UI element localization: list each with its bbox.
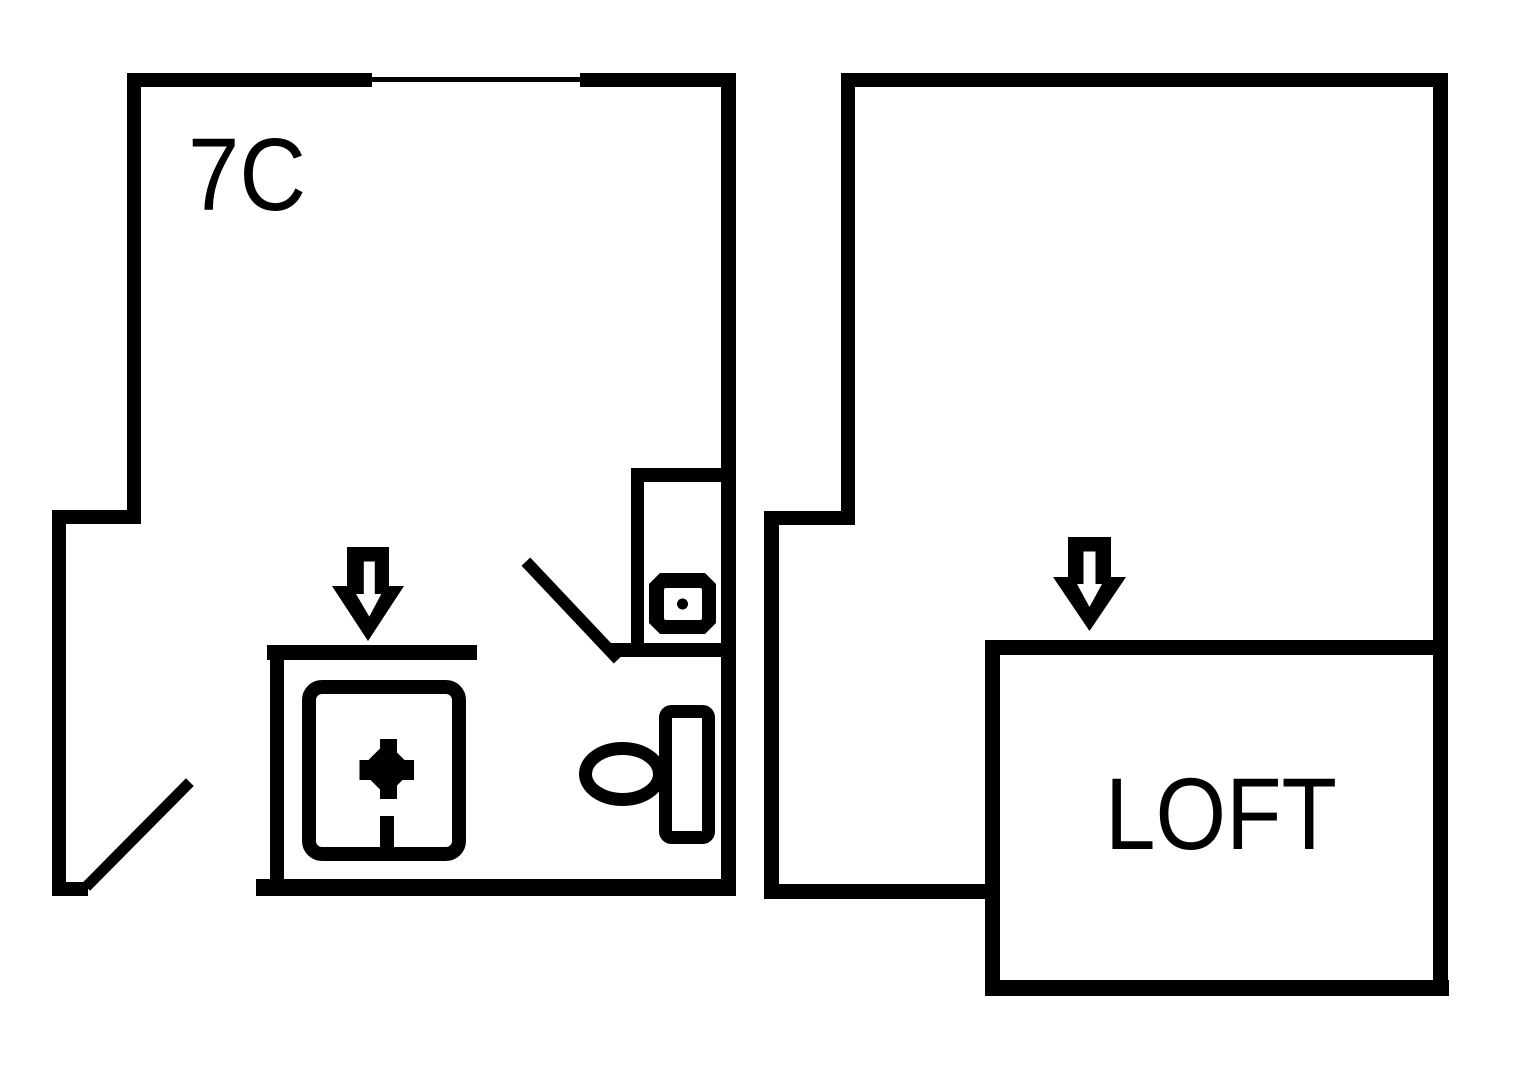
wall: unit 7C left jog <box>52 510 141 524</box>
wall: loft room top <box>841 73 1448 87</box>
wall: unit 7C upper-left <box>127 73 141 524</box>
wall: loft room bottom <box>764 884 1000 899</box>
svg-text:7C: 7C <box>188 117 306 232</box>
arrow: loft entrance (inner) <box>1077 552 1102 608</box>
wall: unit 7C bottom foot <box>52 882 88 896</box>
wall: unit 7C right <box>721 73 736 896</box>
toilet bowl <box>586 749 660 800</box>
vanity cabinet bottom <box>611 643 736 657</box>
wall: bathroom left <box>270 645 284 879</box>
wall: loft room right <box>1433 73 1448 996</box>
shower head star <box>360 739 415 799</box>
shower drain tick <box>380 816 394 852</box>
toilet tank <box>666 712 709 838</box>
sink basin (octagon) <box>649 573 716 634</box>
wall: loft room left jog <box>764 511 855 525</box>
shower stall <box>309 687 459 854</box>
wall: unit 7C bottom <box>256 879 736 896</box>
door swing: unit 7C entry <box>90 786 186 883</box>
vanity cabinet left <box>631 468 644 656</box>
wall: loft left <box>985 640 1000 996</box>
wall: loft top <box>985 640 1448 655</box>
wall: unit 7C top-right segment <box>580 73 736 87</box>
wall: unit 7C lower-left <box>52 510 66 896</box>
sink drain dot <box>677 599 688 610</box>
wall: unit 7C top-left segment <box>127 73 372 87</box>
arrow: unit 7C entrance (inner) <box>356 562 381 617</box>
svg-text:LOFT: LOFT <box>1105 757 1337 871</box>
arrow: unit 7C entrance (outer) <box>332 547 404 641</box>
wall: loft bottom <box>985 980 1449 996</box>
window: unit 7C top wall opening (thin line) <box>372 77 580 82</box>
wall: loft room upper-left <box>841 73 855 524</box>
vanity cabinet top <box>631 468 736 482</box>
arrow: loft entrance (outer) <box>1053 537 1126 631</box>
sink basin inner <box>664 588 702 620</box>
wall: loft room lower-left <box>764 511 779 899</box>
wall: bathroom top <box>267 645 477 660</box>
door swing: bathroom <box>530 566 614 655</box>
